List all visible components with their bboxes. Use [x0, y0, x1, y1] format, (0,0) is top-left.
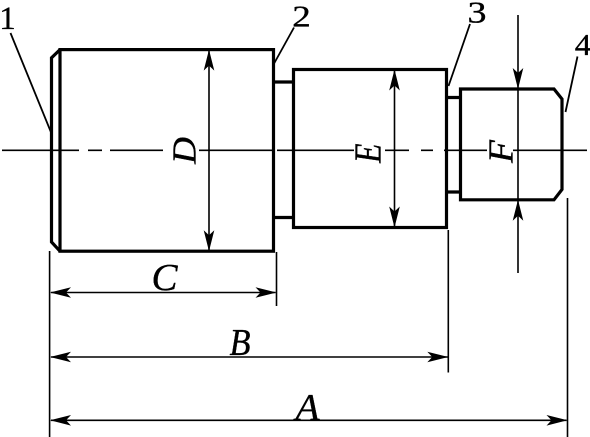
extension line right of A [567, 198, 569, 437]
dimension F arrow down (from above) [513, 68, 524, 89]
dimension A arrow right [547, 415, 568, 426]
dimension E arrow up [389, 70, 400, 91]
small cylinder body with right chamfer [461, 89, 563, 200]
dimension F line [517, 15, 519, 273]
svg-text:A: A [292, 387, 320, 429]
svg-text:C: C [152, 257, 179, 299]
big cylinder body [60, 50, 274, 252]
leader 3 [449, 24, 471, 86]
leader 2 [274, 28, 294, 65]
dimension F arrow up (from below) [513, 200, 524, 221]
medium cylinder body [294, 70, 447, 228]
svg-text:2: 2 [292, 0, 311, 34]
svg-text:E: E [348, 143, 390, 163]
svg-text:D: D [167, 137, 204, 166]
dimension D arrow down [204, 230, 215, 251]
leader 4 [566, 57, 578, 113]
svg-text:1: 1 [0, 1, 16, 37]
extension line left (shared by C B A) [49, 251, 51, 437]
svg-text:B: B [230, 322, 251, 364]
dimension B arrow right [427, 352, 448, 363]
dimension C arrow left [50, 287, 71, 298]
dimension D arrow up [204, 50, 215, 71]
svg-text:4: 4 [575, 27, 590, 62]
dimension C arrow right [256, 287, 277, 298]
neck groove between medium and small cylinder [447, 98, 461, 193]
centerline (axis) [2, 149, 587, 151]
neck groove between big and medium cylinder [274, 82, 294, 218]
svg-text:3: 3 [468, 0, 487, 30]
extension line right of C [276, 252, 278, 306]
dimension A arrow left [50, 415, 71, 426]
dimension A line [51, 419, 567, 421]
dimension C line [51, 292, 276, 294]
leader 1 [11, 33, 52, 134]
dimension E arrow down [389, 207, 400, 228]
dimension B line [51, 356, 448, 358]
svg-text:F: F [482, 139, 521, 164]
dimension B arrow left [50, 352, 71, 363]
dimension E line [394, 71, 396, 227]
extension line right of B [447, 230, 449, 373]
big cylinder left chamfer [52, 50, 61, 252]
dimension D line [208, 51, 210, 250]
